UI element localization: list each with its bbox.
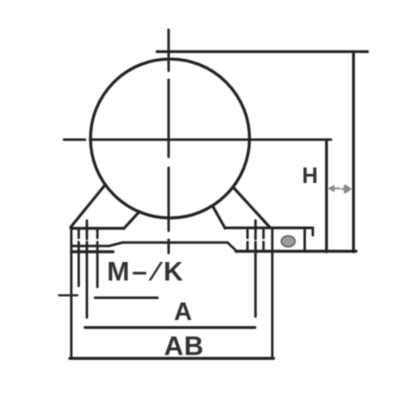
housing bore circle [91, 59, 250, 218]
svg-text:M–∕K: M–∕K [107, 257, 184, 287]
short dimension line below M-K [95, 296, 158, 299]
left inner slant of housing boss [124, 212, 140, 229]
dimension line AB [70, 357, 274, 360]
right bolt slot edge (left) [246, 230, 248, 251]
left bolt slot edge (right) [96, 230, 98, 287]
top dimension line (shaft top level) [157, 50, 368, 53]
base left edge / AB extension line [70, 227, 72, 359]
base bottom edge right foot and extension [236, 250, 356, 253]
center height dimension line H [325, 140, 328, 252]
svg-text:A: A [174, 298, 192, 326]
base top edge right side [225, 226, 313, 229]
svg-text:H: H [302, 163, 318, 188]
base middle relief line left pad [71, 243, 237, 252]
horizontal center line [64, 138, 331, 141]
dimension line A [85, 326, 255, 329]
base right edge / AB extension line [271, 228, 273, 359]
tick on left edge [59, 294, 77, 296]
base top edge left pad [71, 227, 124, 230]
vertical center line [167, 30, 170, 253]
svg-text:AB: AB [164, 331, 204, 361]
right bolt center line [254, 221, 257, 317]
base bottom edge left foot [71, 250, 113, 253]
gray arrowhead pointing left at H line [328, 185, 335, 193]
overall height dimension line (right) [352, 52, 355, 252]
left bolt center line [86, 221, 89, 318]
right bolt slot edge (right) [262, 230, 264, 251]
bolt hole in side lug (gray) [281, 236, 295, 247]
left outer slant of housing body [71, 185, 105, 227]
side lug end tick [312, 228, 315, 236]
right inner slant of housing boss [213, 206, 226, 229]
left bolt slot edge (left) [77, 230, 79, 286]
right outer slant of housing body [233, 187, 270, 228]
gray arrowhead pointing right at overall-height line [344, 185, 352, 193]
side lug inner vertical [303, 229, 306, 251]
